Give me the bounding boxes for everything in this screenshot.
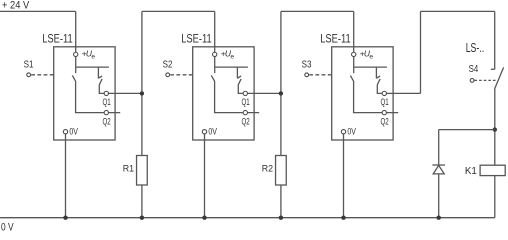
reed contact fixed stub unit 3: [353, 67, 355, 73]
S4 contact blade: [495, 67, 504, 88]
wire +24V rail to +Ue pin and internal bus: [75, 11, 77, 67]
wire +24V rail drop to unit 3 Q1: [420, 11, 422, 93]
svg-text:LSE-11: LSE-11: [320, 31, 351, 45]
switch S4 actuator dashed line: [475, 79, 497, 81]
junction dot freewheeling diode branch: [493, 127, 497, 131]
output stage stub unit 2: [236, 67, 238, 78]
svg-text:e: e: [91, 54, 95, 61]
Q2 pin circle unit 2: [243, 110, 247, 114]
wire +24V rail through R1 to 0V rail: [141, 11, 143, 217]
Q1 pin circle unit 1: [104, 91, 108, 95]
svg-text:+ 24 V: + 24 V: [2, 0, 30, 12]
wire output stage to Q1 pin unit 2: [238, 85, 281, 94]
junction dot 0V unit 3 on 0V rail: [341, 216, 345, 220]
switch S3 actuator circle: [305, 73, 309, 77]
junction dot diode on 0V rail: [437, 216, 441, 220]
wire diode branch horizontal: [439, 129, 495, 131]
svg-text:S4: S4: [469, 63, 479, 75]
svg-text:S3: S3: [302, 59, 312, 71]
reed contact blade unit 1: [72, 75, 75, 81]
wire +24V rail to +Ue pin and internal bus: [214, 11, 216, 67]
relay coil K1 box: [480, 165, 505, 175]
reed contact blade unit 3: [350, 75, 353, 81]
junction dot R1 on 0V rail: [140, 216, 144, 220]
svg-text:0V: 0V: [208, 127, 217, 137]
+24V rail segment 3: [281, 10, 354, 12]
svg-text:Q2: Q2: [103, 116, 111, 126]
switch S2 actuator circle: [166, 73, 170, 77]
output stage blade unit 1: [99, 79, 102, 85]
junction dot Q1 / R2: [279, 91, 283, 95]
switch S1 actuator circle: [27, 73, 31, 77]
svg-text:Q1: Q1: [381, 97, 389, 107]
S4 fixed contact tick: [491, 68, 495, 70]
resistor R2 box: [276, 156, 287, 186]
wire reed contact to Q2 pin unit 3: [354, 81, 399, 113]
sensor block U3 box: [332, 47, 393, 140]
junction dot 0V unit 1 on 0V rail: [63, 216, 67, 220]
wire output stage to Q1 pin unit 1: [99, 85, 142, 94]
wire 0V pin to 0V rail unit 2: [204, 132, 206, 218]
svg-text:Q2: Q2: [381, 116, 389, 126]
svg-text:LSE-11: LSE-11: [181, 31, 212, 45]
svg-text:LS-..: LS-..: [466, 40, 485, 55]
resistor R1 box: [137, 156, 148, 186]
svg-text:Q1: Q1: [103, 97, 111, 107]
wire reed contact to Q2 pin unit 2: [215, 81, 260, 113]
diode V1 triangle: [433, 165, 444, 174]
sensor block U1 box: [54, 47, 115, 140]
Q1 pin circle unit 3: [382, 91, 386, 95]
svg-text:0V: 0V: [347, 127, 356, 137]
wire diode anode to 0V rail: [438, 174, 440, 218]
internal bus wire unit 3: [354, 66, 387, 68]
0V pin circle unit 3: [341, 130, 345, 134]
internal bus wire unit 1: [76, 66, 109, 68]
svg-text:K1: K1: [465, 165, 477, 177]
sensor block U2 box: [193, 47, 254, 140]
junction dot 0V unit 2 on 0V rail: [202, 216, 206, 220]
switch S1 actuator dashed line: [31, 74, 54, 76]
switch S4 actuator circle: [470, 79, 474, 83]
internal bus wire unit 2: [215, 66, 248, 68]
+Ue pin circle unit 1: [74, 52, 78, 56]
reed contact blade unit 2: [211, 75, 214, 81]
diode V1 cathode bar: [432, 164, 445, 166]
switch S2 actuator dashed line: [170, 74, 193, 76]
wire 0V pin to 0V rail unit 1: [65, 132, 67, 218]
+24V rail segment 1: [0, 10, 76, 12]
Q1 pin circle unit 2: [243, 91, 247, 95]
wire output stage to Q1 pin unit 3: [377, 85, 420, 94]
svg-text:Q1: Q1: [242, 97, 250, 107]
output stage blade unit 3: [377, 79, 380, 85]
wire +24V rail through R2 to 0V rail: [280, 11, 282, 217]
svg-text:LSE-11: LSE-11: [42, 31, 73, 45]
switch S3 actuator dashed line: [309, 74, 332, 76]
svg-text:e: e: [230, 54, 234, 61]
svg-text:S2: S2: [163, 59, 173, 71]
wire 0V pin to 0V rail unit 3: [343, 132, 345, 218]
Q2 pin circle unit 1: [104, 110, 108, 114]
svg-text:R2: R2: [262, 164, 273, 175]
output stage blade unit 2: [238, 79, 241, 85]
reed contact fixed stub unit 1: [75, 67, 77, 73]
svg-text:S1: S1: [24, 59, 34, 71]
svg-text:Q2: Q2: [242, 116, 250, 126]
svg-text:0 V: 0 V: [1, 221, 14, 231]
Q2 pin circle unit 3: [382, 110, 386, 114]
junction dot R2 on 0V rail: [279, 216, 283, 220]
wire reed contact to Q2 pin unit 1: [76, 81, 121, 113]
reed contact fixed stub unit 2: [214, 67, 216, 73]
+24V rail segment 4: [421, 10, 495, 12]
+Ue pin circle unit 2: [213, 52, 217, 56]
output stage arrow barb unit 1: [98, 76, 102, 78]
output stage stub unit 1: [97, 67, 99, 78]
wire S4 to relay coil K1: [494, 88, 496, 165]
wire relay coil K1 to 0V rail: [494, 176, 496, 218]
output stage stub unit 3: [375, 67, 377, 78]
0V pin circle unit 1: [63, 130, 67, 134]
0V pin circle unit 2: [202, 130, 206, 134]
svg-text:R1: R1: [123, 164, 134, 175]
+Ue pin circle unit 3: [352, 52, 356, 56]
+24V rail segment 2: [142, 10, 215, 12]
junction dot Q1 / R1: [140, 91, 144, 95]
wire +24V rail to +Ue pin and internal bus: [353, 11, 355, 67]
svg-text:e: e: [369, 54, 373, 61]
wire +24V rail to S4 fixed contact: [494, 11, 496, 69]
0V rail: [0, 217, 495, 219]
output stage arrow barb unit 2: [237, 76, 241, 78]
svg-text:0V: 0V: [69, 127, 78, 137]
wire diode branch vertical to cathode: [438, 130, 440, 165]
output stage arrow barb unit 3: [376, 76, 380, 78]
